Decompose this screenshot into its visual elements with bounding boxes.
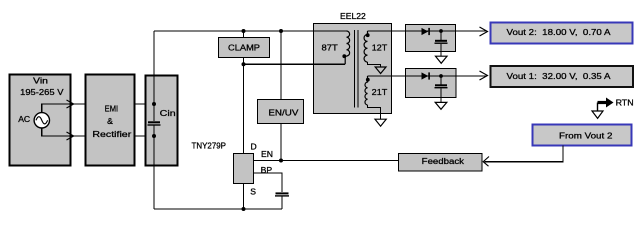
capacitor Cin symbol (148, 121, 161, 125)
svg-text:RTN: RTN (616, 97, 634, 107)
arrowhead into Feedback (483, 157, 489, 167)
svg-text:EN: EN (261, 149, 273, 159)
svg-text:From Vout 2: From Vout 2 (559, 131, 613, 141)
winding secondary 12T (364, 31, 367, 62)
arrowhead into EMI top (67, 100, 74, 108)
AC source symbol (34, 113, 49, 128)
svg-text:87T: 87T (322, 42, 339, 52)
winding primary 87T (347, 31, 350, 56)
node EN/UV top junction (279, 29, 283, 33)
wire EN pin to Feedback (254, 160, 399, 162)
block EMI & Rectifier (86, 75, 135, 166)
node EN junction (279, 159, 283, 163)
wire secondary 12T output (368, 30, 488, 32)
wire S pin to ground rail (243, 184, 245, 210)
svg-text:S: S (250, 186, 256, 196)
wire drain to primary bottom (inside transformer) (314, 63, 346, 65)
svg-text:12T: 12T (372, 43, 388, 53)
wire bypass cap to ground rail (281, 197, 283, 210)
node 12T dot (366, 33, 370, 37)
svg-text:&: & (107, 116, 113, 126)
svg-text:EEL22: EEL22 (340, 11, 366, 21)
svg-text:AC: AC (18, 114, 30, 124)
arrowhead into Vout 1 (480, 71, 488, 80)
wire DC bus top rail (154, 30, 314, 32)
wire EMI to Cin bottom (135, 135, 155, 137)
svg-text:D: D (251, 142, 257, 152)
wire ground return rail (154, 208, 282, 210)
svg-text:Vout 2: 18.00 V, 0.70 A: Vout 2: 18.00 V, 0.70 A (507, 27, 611, 37)
wire junction to cap C1 (440, 31, 442, 40)
capacitor C1 symbol (435, 40, 448, 44)
wire through rectifier 1 (406, 30, 456, 32)
block Feedback (399, 154, 483, 172)
svg-text:Vout 1: 32.00 V, 0.35 A: Vout 1: 32.00 V, 0.35 A (507, 71, 611, 81)
wire Cin bottom to ground rail (153, 126, 155, 209)
wire EN/UV to EN node (280, 124, 282, 161)
wire through rectifier 2 (406, 75, 457, 77)
block EN/UV (258, 100, 304, 124)
node primary dot (342, 54, 346, 58)
node rectifier 1 junction (439, 29, 443, 33)
transformer core lines (355, 30, 359, 108)
wire CLAMP to drain node (243, 58, 245, 65)
svg-text:EN/UV: EN/UV (268, 108, 298, 118)
ground return triangle rectifier 2 (435, 102, 447, 109)
ground return triangle 21T (375, 119, 386, 126)
wire cap C2 to return triangle (440, 88, 442, 102)
wire bus to primary top (314, 30, 347, 32)
node 21T dot (366, 78, 370, 82)
node rectifier 2 junction (439, 74, 443, 78)
wire BP pin to bypass cap (254, 173, 283, 192)
wire drain node to primary bottom (244, 63, 314, 65)
wire AC top to EMI (42, 104, 86, 113)
capacitor C2 symbol (435, 84, 448, 88)
wire junction to cap C2 (440, 76, 442, 85)
wire From Vout 2 to Feedback (485, 146, 564, 162)
ground return triangle 12T (375, 67, 386, 74)
block Vin (AC input source) (10, 75, 71, 166)
net RTN symbol (592, 98, 614, 119)
node S junction (242, 207, 246, 211)
label EMI & Rectifier (92, 104, 131, 140)
diode D2 (422, 72, 430, 79)
svg-text:195-265 V: 195-265 V (20, 87, 64, 97)
block output rectifier 2 (406, 69, 457, 98)
wire AC bottom to EMI (42, 128, 86, 136)
block CLAMP (219, 38, 270, 58)
arrowhead into Vout 2 (480, 27, 488, 36)
svg-text:Rectifier: Rectifier (92, 129, 131, 139)
wire EMI to Cin top (135, 103, 155, 105)
winding secondary 21T (365, 76, 368, 105)
wire DC bus vertical (Cin branch) (153, 31, 155, 121)
svg-text:CLAMP: CLAMP (228, 42, 260, 52)
node drain junction (242, 62, 246, 66)
arrowhead into EMI bottom (67, 132, 74, 140)
block From Vout 2 (533, 125, 632, 146)
svg-text:21T: 21T (372, 87, 388, 97)
block Vout 2 (491, 23, 633, 44)
wire cap C1 to return triangle (440, 44, 442, 56)
svg-text:EMI: EMI (105, 104, 119, 114)
block Cin (146, 76, 178, 166)
wire drain node to D pin (243, 64, 245, 153)
capacitor bypass symbol (275, 192, 289, 196)
block output rectifier 1 (406, 25, 456, 52)
wire 21T return (368, 105, 381, 119)
block Vout 1 (491, 66, 634, 87)
wire bus to CLAMP (243, 31, 245, 38)
wire secondary 21T output (368, 75, 488, 77)
ic U1 TNY279P body (234, 154, 254, 184)
node clamp top junction (242, 29, 246, 33)
transformer T1 EEL22 body (314, 24, 392, 114)
svg-text:Vin: Vin (33, 75, 48, 85)
wire 12T return (368, 62, 381, 67)
diode D1 (422, 28, 430, 35)
node Cin bottom junction (152, 134, 156, 138)
node Cin top junction (152, 102, 156, 106)
svg-text:TNY279P: TNY279P (192, 140, 227, 150)
svg-text:Feedback: Feedback (422, 156, 465, 166)
wire bus to EN/UV (280, 31, 282, 100)
svg-text:Cin: Cin (160, 108, 176, 118)
ground return triangle rectifier 1 (436, 56, 448, 63)
wire primary bottom to drain wire (345, 56, 346, 64)
